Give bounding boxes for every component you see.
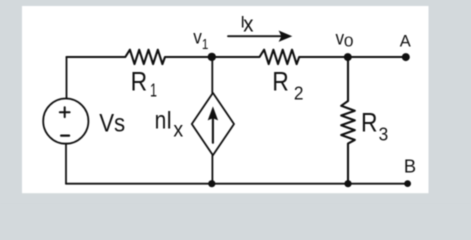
svg-text:Vs: Vs [99, 110, 125, 138]
svg-text:B: B [404, 155, 416, 176]
svg-text:1: 1 [202, 36, 209, 53]
svg-text:0: 0 [344, 34, 354, 50]
svg-text:x: x [243, 11, 253, 36]
svg-text:v: v [193, 27, 202, 48]
svg-text:x: x [173, 119, 183, 142]
svg-text:R: R [361, 108, 378, 138]
svg-text:R: R [272, 67, 289, 97]
svg-text:1: 1 [150, 81, 157, 101]
svg-text:3: 3 [379, 123, 389, 144]
svg-text:A: A [400, 32, 411, 50]
svg-text:R: R [131, 66, 148, 96]
svg-text:nI: nI [155, 107, 173, 135]
svg-text:2: 2 [294, 82, 304, 103]
